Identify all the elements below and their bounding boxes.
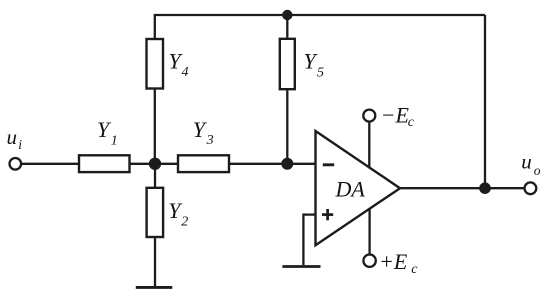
wire: +Ec terminal to op-amp bottom edge [368,209,370,255]
svg-text:i: i [18,137,22,152]
resistor Y4 [147,39,164,89]
node: -Ec terminal (open circle) [363,110,375,122]
resistor Y5 [280,39,295,89]
node: input terminal (open circle) [10,158,22,170]
wire: top to Y4 [154,14,156,40]
node: summing junction dot [149,158,161,170]
wire: junction to Y2 [154,164,156,188]
op-amp DA triangle [316,131,401,245]
node: output junction dot [479,182,491,194]
wire: Y1 to junction node [130,163,179,165]
svg-text:o: o [534,163,541,178]
wire: Y3 to op-amp inverting input [229,163,316,165]
svg-text:+E: +E [379,249,408,274]
op-amp non-inverting input marker (plus) [322,213,333,216]
svg-text:c: c [408,115,415,130]
wire: Y4 to junction [154,89,156,164]
node: inverting input dot [281,158,293,170]
resistor Y1 [79,155,130,172]
wire: op-amp output to terminal [400,187,525,189]
svg-text:−E: −E [381,102,410,127]
wire: feedback vertical right side [484,15,486,188]
svg-text:u: u [7,125,18,149]
wire: top feedback horizontal [155,14,485,16]
svg-text:5: 5 [317,66,324,81]
wire: top junction to Y5 [286,15,288,39]
resistor Y2 [147,188,164,237]
ground (below Y2) [136,286,173,289]
svg-text:3: 3 [206,133,214,148]
wire: non-inverting input to ground (horizontal) [303,213,315,215]
svg-text:Y: Y [193,117,208,142]
svg-text:u: u [521,149,532,173]
ground (op-amp non-inverting input) [282,265,320,268]
node: +Ec terminal (open circle) [363,255,375,267]
svg-text:2: 2 [181,215,188,230]
svg-text:c: c [411,262,418,277]
wire: input terminal to Y1 [21,163,79,165]
op-amp inverting input marker (minus) [323,163,334,166]
svg-text:Y: Y [97,117,112,142]
svg-text:4: 4 [182,65,189,80]
wire: non-inverting input to ground (vertical) [302,214,304,266]
wire: Y5 to inverting node [286,89,288,164]
node: top junction dot [282,10,292,20]
svg-text:1: 1 [111,134,118,149]
node: output terminal (open circle) [525,182,537,194]
wire: -Ec terminal to op-amp top edge [368,122,370,169]
wire: Y2 to ground [154,237,156,286]
resistor Y3 [178,155,229,172]
svg-text:DA: DA [335,176,366,201]
